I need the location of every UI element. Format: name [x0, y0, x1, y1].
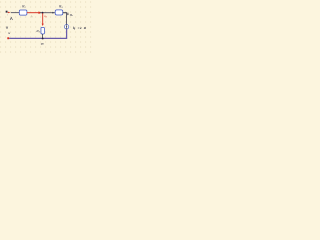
branch R2: red voltage arrow down — [42, 13, 44, 26]
node junction (top middle) — [42, 12, 44, 14]
wire — [11, 12, 20, 14]
resistor R2 (middle vertical box) — [41, 27, 45, 34]
port voltage arrowhead (up caret) — [10, 17, 12, 20]
resistor R1 (top-left box) — [19, 10, 27, 15]
wire — [40, 12, 67, 14]
current arrow into port (red) — [8, 12, 11, 14]
wire below R2 — [42, 34, 44, 38]
wire corner down (top right) — [63, 13, 67, 25]
terminal a (top-left port pin) — [6, 11, 8, 13]
background — [0, 0, 95, 54]
svg-text:v: v — [8, 31, 10, 35]
svg-text:u: u — [6, 26, 8, 30]
controlled current source U1 (circle) — [64, 25, 68, 29]
current arrow i (red, after R1) — [27, 11, 42, 14]
current arrowhead on wire (before R3) — [52, 12, 54, 14]
bottom net wire (purple) — [9, 29, 66, 38]
small down arrow iv — [67, 13, 69, 15]
terminal b (bottom-left port pin, red) — [7, 37, 9, 39]
resistor R3 (top-right box) — [55, 10, 63, 15]
node junction (bottom middle) — [42, 38, 44, 40]
